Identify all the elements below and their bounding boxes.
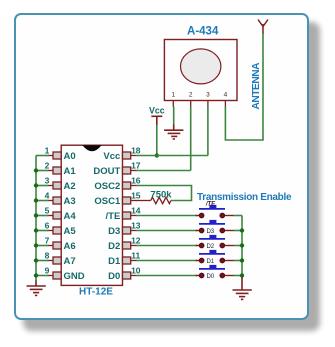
- svg-text:Vcc: Vcc: [149, 105, 165, 115]
- svg-text:A7: A7: [64, 256, 76, 267]
- power Vcc symbol: [151, 116, 162, 125]
- wire pin12 D2 to switch: [136, 245, 198, 247]
- svg-text:4: 4: [224, 92, 228, 99]
- svg-text:18: 18: [131, 146, 141, 156]
- svg-text:/TE: /TE: [106, 211, 121, 222]
- wire pin17 DOUT: [136, 170, 191, 172]
- IC U1 HT-12E body: [61, 145, 122, 285]
- svg-text:D0: D0: [206, 274, 214, 280]
- switch SW1 /TE: [196, 205, 234, 218]
- module U2 pin number 4: [224, 92, 228, 99]
- IC U1 name label HT-12E: [79, 287, 113, 298]
- svg-text:D1: D1: [108, 256, 121, 267]
- module U2 A-434 body: [164, 40, 237, 101]
- svg-text:D3: D3: [206, 229, 214, 235]
- svg-text:750k: 750k: [150, 190, 172, 201]
- ground left bus: [27, 281, 46, 296]
- svg-text:/TE: /TE: [205, 202, 216, 208]
- IC U1 right pin stubs: [131, 156, 137, 276]
- switch SW5 D0: [196, 265, 234, 278]
- wire A434 pin2 to DOUT: [190, 107, 192, 171]
- svg-text:14: 14: [131, 206, 141, 216]
- svg-text:A-434: A-434: [187, 26, 219, 38]
- switch SW2 D3: [196, 220, 234, 233]
- svg-text:11: 11: [131, 251, 140, 261]
- svg-text:17: 17: [131, 161, 141, 171]
- svg-text:8: 8: [45, 251, 50, 261]
- IC U1 left pin numbers 1-9: [45, 146, 50, 276]
- label 750k: [150, 190, 172, 201]
- wire pin18 Vcc rail: [136, 155, 208, 157]
- IC U1 right pads pins 18-10: [123, 152, 131, 279]
- svg-text:A1: A1: [64, 166, 77, 177]
- svg-text:A6: A6: [64, 241, 76, 252]
- svg-text:10: 10: [131, 266, 141, 276]
- svg-text:ANTENNA: ANTENNA: [251, 62, 262, 110]
- power Vcc label: [149, 105, 165, 115]
- svg-text:9: 9: [45, 266, 50, 276]
- svg-text:D0: D0: [108, 271, 120, 282]
- resistor R1 750k: [136, 197, 171, 203]
- svg-text:13: 13: [131, 221, 141, 231]
- svg-text:D3: D3: [108, 226, 120, 237]
- svg-text:A5: A5: [64, 226, 77, 237]
- ground under A-434 pin 1: [164, 125, 183, 140]
- module U2 pin number 1: [171, 92, 175, 99]
- wire pin13 D3 to switch: [136, 230, 198, 232]
- svg-text:2: 2: [45, 161, 50, 171]
- module U2 pin stubs: [173, 101, 225, 108]
- svg-text:HT-12E: HT-12E: [79, 287, 113, 298]
- svg-text:1: 1: [45, 146, 50, 156]
- svg-text:A4: A4: [64, 211, 77, 222]
- switch SW3 D2: [196, 235, 234, 248]
- ground switch bus: [233, 278, 252, 300]
- label D0 switch: [206, 274, 214, 280]
- wire Vcc to pin18 rail: [156, 125, 158, 156]
- IC U1 left pin stubs: [48, 156, 54, 276]
- IC U1 right pin labels: [93, 151, 121, 282]
- svg-text:A0: A0: [64, 151, 76, 162]
- node junctions left bus: [34, 168, 38, 277]
- svg-text:3: 3: [206, 92, 210, 99]
- IC U1 left pads pins 1-9: [53, 152, 61, 279]
- svg-text:DOUT: DOUT: [93, 166, 120, 177]
- svg-text:A3: A3: [64, 196, 76, 207]
- label D3 switch: [206, 229, 214, 235]
- svg-text:5: 5: [45, 206, 50, 216]
- wire A434 pin4 to antenna: [225, 33, 263, 140]
- label ANTENNA: [251, 62, 262, 110]
- svg-text:GND: GND: [64, 271, 85, 282]
- svg-text:Vcc: Vcc: [103, 151, 120, 162]
- wire pin14 /TE to switch: [136, 215, 198, 217]
- svg-text:6: 6: [45, 221, 50, 231]
- label Transmission Enable: [197, 192, 292, 203]
- module U2 A-434 label: [187, 26, 219, 38]
- node junctions switch bus: [240, 228, 244, 277]
- label D1 switch: [206, 259, 214, 265]
- svg-text:OSC1: OSC1: [94, 196, 121, 207]
- antenna AE1: [258, 20, 268, 34]
- wire pin10 D0 to switch: [136, 275, 198, 277]
- switch SW4 D1: [196, 250, 234, 263]
- wire left address bus: [36, 156, 49, 282]
- wire switch bus right: [234, 216, 243, 279]
- module U2 pin number 2: [189, 92, 193, 99]
- svg-text:15: 15: [131, 191, 141, 201]
- svg-text:OSC2: OSC2: [94, 181, 120, 192]
- svg-text:4: 4: [45, 191, 50, 201]
- svg-text:1: 1: [171, 92, 175, 99]
- IC U1 right pin numbers 18-10: [131, 146, 141, 276]
- wire pin16 OSC2 loop: [136, 186, 192, 201]
- svg-text:D2: D2: [206, 244, 214, 250]
- wire A434 pin3 to Vcc rail: [207, 107, 209, 156]
- svg-text:2: 2: [189, 92, 193, 99]
- svg-text:16: 16: [131, 176, 141, 186]
- IC U1 left pin labels: [64, 151, 85, 282]
- label /TE switch: [205, 202, 216, 208]
- svg-text:12: 12: [131, 236, 141, 246]
- module U2 pin number 3: [206, 92, 210, 99]
- label D2 switch: [206, 244, 214, 250]
- svg-text:D1: D1: [206, 259, 214, 265]
- node junction Vcc rail: [155, 153, 159, 157]
- wire A434 pin1 to ground: [173, 107, 175, 126]
- svg-text:A2: A2: [64, 181, 76, 192]
- svg-text:7: 7: [45, 236, 50, 246]
- wire pin11 D1 to switch: [136, 260, 198, 262]
- svg-text:3: 3: [45, 176, 50, 186]
- svg-text:D2: D2: [108, 241, 120, 252]
